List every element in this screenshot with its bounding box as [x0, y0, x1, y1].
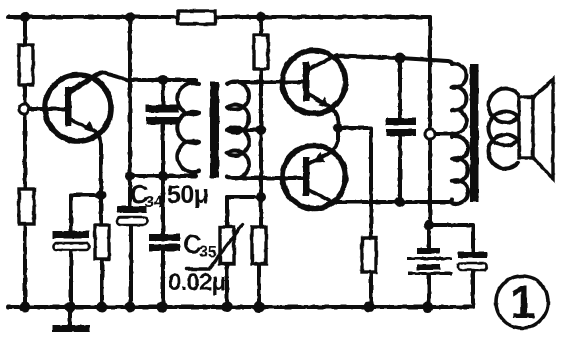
svg-text:1: 1 — [510, 276, 536, 328]
svg-text:35: 35 — [199, 244, 217, 261]
svg-text:50μ: 50μ — [167, 181, 209, 209]
svg-text:0.02μ: 0.02μ — [168, 269, 226, 296]
svg-text:34: 34 — [145, 194, 163, 211]
